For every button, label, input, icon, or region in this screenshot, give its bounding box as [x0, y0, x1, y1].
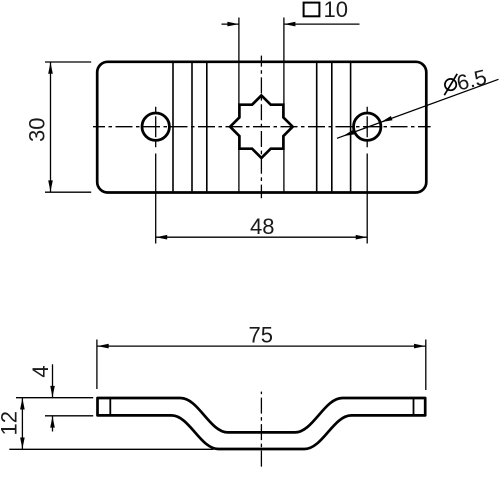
- bend line right outer: [350, 63, 352, 191]
- bend line left middle: [191, 63, 193, 191]
- vertical centerline left hole: [155, 107, 157, 148]
- svg-text:30: 30: [24, 118, 49, 142]
- bend line left outer: [172, 63, 174, 191]
- svg-text:48: 48: [250, 214, 274, 239]
- bend line right inner: [316, 63, 318, 191]
- leader diameter 6.5: leader line: [337, 79, 499, 138]
- dimension 30: extension line bottom: [45, 191, 91, 193]
- dimension 4: extension line top: [16, 397, 93, 399]
- dimension 48: extension line right: [366, 154, 368, 244]
- square-hole side line right (below star): [283, 149, 285, 191]
- svg-text:10: 10: [324, 0, 348, 22]
- dimension 75: dimension line: [97, 345, 426, 347]
- left end cap line: [109, 398, 111, 415]
- dimension 30: dimension line: [50, 62, 52, 192]
- dimension 4: dimension line below: [52, 416, 54, 432]
- dimension 75: arrow left: [97, 344, 109, 349]
- dimension 75: arrow right: [414, 344, 426, 349]
- leader diameter 6.5: arrow at circle edge: [381, 116, 393, 122]
- svg-text:12: 12: [0, 411, 21, 435]
- bend line left inner: [206, 63, 208, 191]
- plate outline (rounded rectangle): [97, 62, 426, 193]
- dimension 48: arrow left: [156, 235, 168, 240]
- vertical centerline through star: [260, 56, 262, 199]
- dimension 12: extension line bottom: [9, 448, 213, 450]
- dimension square-10: right arrow: [284, 22, 296, 27]
- dimension 30: arrow up: [48, 62, 53, 74]
- right end cap line: [413, 398, 415, 415]
- square-hole side line / extension line right (above star): [283, 18, 285, 105]
- dimension 30: extension line top: [45, 61, 91, 63]
- star-shaped square broach hole: [230, 95, 293, 158]
- dimension 48: arrow right: [356, 235, 368, 240]
- vertical centerline right hole: [366, 107, 368, 148]
- square-hole side line left (below star): [238, 149, 240, 191]
- leader diameter 6.5: diameter symbol slash: [444, 74, 457, 95]
- dimension square-10: left arrow: [227, 22, 239, 27]
- dimension 30: arrow down: [48, 180, 53, 192]
- bend line right middle: [331, 63, 333, 191]
- square-hole side line / extension line left (above star): [238, 18, 240, 105]
- dimension 48: extension line left: [155, 154, 157, 244]
- dimension square-10: dimension line left part: [222, 23, 239, 25]
- dimension 12: dimension line: [21, 398, 23, 450]
- dimension 4: extension line bottom: [45, 415, 93, 417]
- leader diameter 6.5: diameter symbol circle: [445, 79, 456, 90]
- dimension 4: arrow up to bottom edge: [50, 416, 55, 428]
- dimension square-10: square symbol: [304, 3, 320, 17]
- dimension 75: extension line right: [425, 340, 427, 391]
- dimension square-10: dimension line right part: [284, 23, 360, 25]
- dimension 12: arrow down: [20, 438, 25, 450]
- bent strip profile outline: [98, 398, 426, 449]
- dimension 12: arrow up: [20, 398, 25, 410]
- side view vertical centerline: [260, 392, 262, 467]
- dimension 4: dimension line above: [52, 364, 54, 397]
- hole left: [142, 113, 169, 140]
- dimension 75: extension line left: [96, 340, 98, 390]
- leader diameter 6.5: arrow lower left: [343, 130, 355, 136]
- dimension 4: arrow down to top edge: [50, 386, 55, 398]
- dimension 48: dimension line: [156, 236, 368, 238]
- svg-text:4: 4: [28, 365, 53, 377]
- hole right: [354, 113, 381, 140]
- svg-text:75: 75: [249, 323, 273, 348]
- horizontal centerline: [93, 126, 431, 128]
